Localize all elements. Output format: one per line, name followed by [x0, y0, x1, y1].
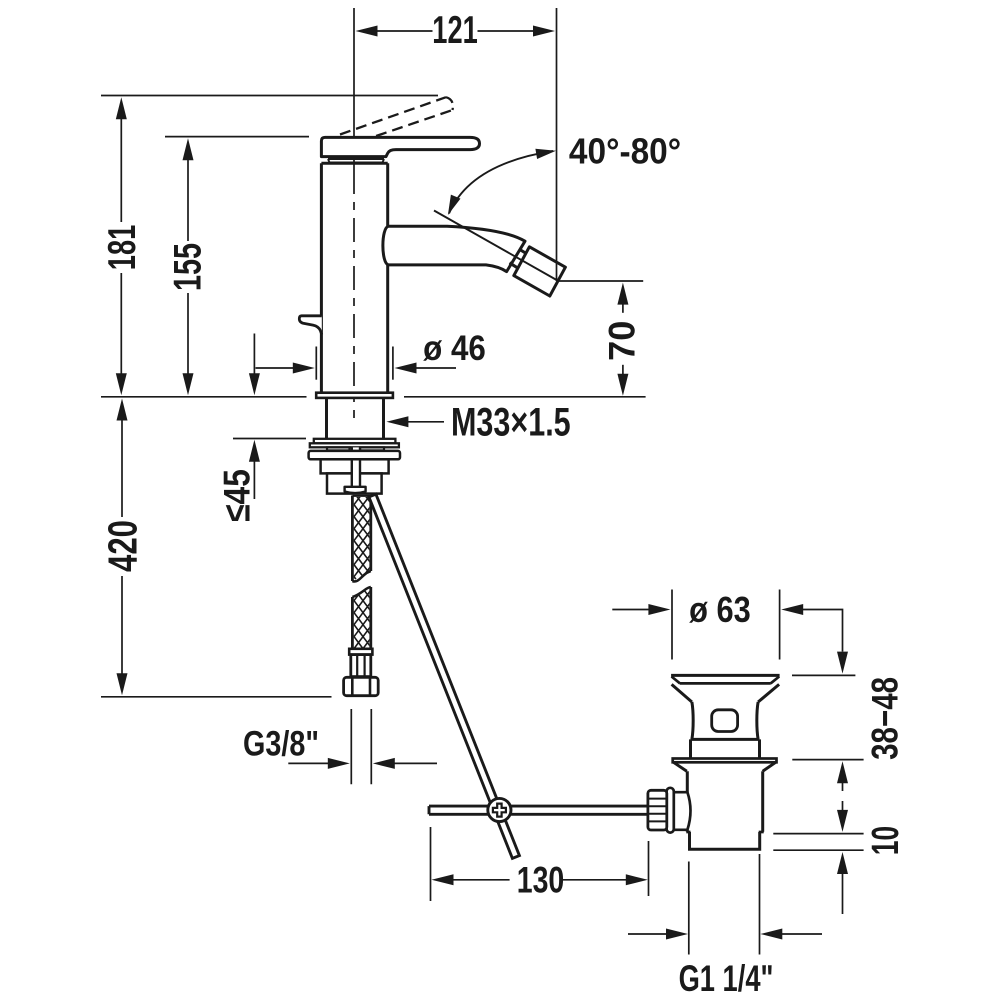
drain funnel cone left [672, 684, 692, 702]
drain funnel lip left [672, 677, 681, 684]
drain overflow hole [712, 710, 738, 732]
dim G38 right extension line [370, 709, 372, 784]
dim 121 label [432, 10, 477, 53]
angle arc arrow lower [448, 195, 461, 215]
dim 3848 label [865, 677, 906, 760]
reducer piece [327, 473, 382, 493]
dim 181 arrow down [116, 373, 127, 395]
dim le45 upper line [253, 334, 255, 376]
port capsule flange [667, 788, 674, 833]
svg-text:70: 70 [601, 321, 643, 361]
dim 130 right extension line [648, 841, 650, 896]
spout [383, 226, 525, 271]
hose ferrule [351, 655, 371, 677]
svg-text:130: 130 [517, 859, 565, 900]
dim 121 arrow left [356, 26, 378, 37]
lever collar ring [328, 159, 384, 162]
dim 3848 arrow down2 [837, 810, 848, 832]
faucet centerline (solid top part / dim 121 left extension) [353, 8, 355, 170]
angle arc [449, 151, 553, 214]
base flange [316, 393, 393, 398]
dim G114 left tail [628, 933, 668, 935]
drain upper body right [757, 702, 758, 739]
dim 10 arrow up [837, 852, 848, 874]
dim 3848 mid line a [842, 781, 844, 791]
dim 155 arrow up [183, 138, 194, 160]
dim 70 upper tail [622, 303, 624, 313]
lock plate left [327, 447, 350, 450]
dim dia63 right tail and corner [803, 610, 843, 652]
step extension line [773, 833, 863, 835]
dim 420 arrow down [117, 673, 128, 695]
dim 181 line upper [120, 117, 122, 222]
drain upper body left [692, 702, 693, 739]
drain mid body [691, 739, 760, 758]
aerator neck upper [519, 249, 528, 254]
drain funnel top [671, 674, 780, 677]
dim 420 label [99, 520, 145, 572]
dim 155 top extension line [165, 136, 309, 138]
aerator [514, 247, 566, 296]
port body [674, 792, 689, 830]
svg-text:10: 10 [863, 826, 906, 855]
drain funnel lip bottom [680, 682, 771, 685]
dim dia63 arrow right [648, 604, 670, 615]
dim 10 bottom tail [842, 873, 844, 915]
dim 130 label [517, 859, 565, 900]
dim 121 line left segment [377, 30, 433, 32]
drain lower body right [761, 771, 764, 832]
rod pivot screw [488, 798, 511, 821]
dim 10 label [863, 826, 906, 855]
svg-text:181: 181 [101, 225, 144, 270]
svg-text:ø 46: ø 46 [423, 329, 486, 368]
drain step right [759, 831, 764, 834]
side tab [299, 316, 322, 335]
actuator bar [429, 806, 648, 814]
dim 121 line right segment [478, 30, 535, 32]
svg-text:121: 121 [432, 10, 477, 53]
drain tailpipe [690, 832, 760, 849]
mounting surface line right [404, 396, 646, 398]
funnel top extension line [792, 674, 855, 676]
svg-text:G1 1/4": G1 1/4" [679, 957, 774, 999]
drain step left [686, 831, 690, 834]
angle arc arrow upper [535, 149, 556, 159]
dim le45 extension line [233, 438, 306, 440]
stud foot [345, 487, 366, 493]
dim dia63 left extension line [671, 590, 673, 660]
dim dia46 arrow right [395, 363, 417, 374]
dim G38 left tail [288, 762, 329, 764]
raised lever dashed upper line [340, 97, 446, 134]
threaded shank M33 [327, 398, 384, 439]
svg-text:38−48: 38−48 [865, 677, 906, 760]
dim 130 right tail [563, 879, 627, 881]
dim G114 label [679, 957, 774, 999]
connection stud [352, 447, 360, 487]
dim dia46 left extension line [315, 347, 317, 380]
dim M33 tail [407, 421, 444, 423]
dim 121 arrow right [533, 26, 555, 37]
knurled knob [648, 790, 667, 830]
label 40-80 degrees [569, 131, 681, 172]
faucet body outline [321, 163, 387, 392]
dim G114 arrow left [760, 929, 782, 940]
hose end nut G3/8 [344, 677, 379, 695]
flange top extension line [792, 759, 863, 761]
dim G114 arrow right [666, 929, 688, 940]
mounting nut [321, 459, 389, 473]
dim dia46 right extension line [392, 347, 394, 380]
dim 130 arrow left [432, 874, 454, 885]
dim G114 left extension line [688, 862, 690, 955]
dim dia63 label [689, 589, 751, 630]
dim G114 right tail [782, 933, 823, 935]
faucet centerline (dashed) [353, 170, 355, 418]
svg-text:≤45: ≤45 [217, 469, 258, 522]
dim 3848 arrow up [837, 761, 848, 783]
dim dia63 right extension line [779, 590, 781, 660]
dim le45 lower line [253, 459, 255, 499]
lock plate right [360, 447, 384, 450]
dim dia46 left tail [256, 367, 295, 369]
drain lower body left [686, 771, 689, 832]
dim dia46 right tail [416, 367, 457, 369]
big washer [309, 451, 400, 459]
dim dia46 label [423, 329, 486, 368]
dim 181 label [101, 225, 144, 270]
dim 130 arrow right [626, 874, 648, 885]
drain flange chamfer left [674, 762, 687, 771]
drain joint line [691, 738, 760, 741]
dim 181 arrow up [116, 97, 127, 119]
dim 181 line lower [120, 273, 122, 375]
drain flange chamfer right [763, 762, 776, 771]
hose collar [349, 649, 372, 655]
dim 70 arrow down [617, 374, 628, 396]
dim G38 arrow left [373, 758, 395, 769]
dim M33 label [451, 401, 571, 445]
dim le45 arrow down [249, 373, 260, 395]
dim 3848 mid line b [842, 801, 844, 811]
mounting surface line left [101, 396, 307, 398]
top reference line [101, 95, 438, 97]
dim le45 arrow up [249, 440, 260, 462]
dim M33 arrow [386, 416, 408, 427]
dim G38 label [243, 723, 319, 763]
dim 70 label [601, 321, 643, 361]
dim 420 arrow up [117, 399, 128, 421]
drain flange plate [673, 759, 777, 763]
dim 121 right extension line [556, 8, 558, 281]
pop-up rod [369, 494, 520, 858]
dim le45 label [217, 469, 258, 522]
lever handle [321, 137, 479, 156]
bottom reference line [101, 696, 332, 698]
dim 70 arrow up [617, 283, 628, 305]
svg-text:G3/8": G3/8" [243, 723, 319, 763]
dim G38 right tail [394, 762, 438, 764]
dim 3848 arrow down [837, 652, 848, 674]
aerator neck lower [510, 263, 519, 268]
dim dia63 left tail [612, 609, 649, 611]
dim 420 line upper [121, 418, 123, 517]
drain funnel cone right [758, 684, 779, 702]
dim G114 right extension line [759, 854, 761, 955]
angle leader line [434, 211, 558, 281]
tailpipe bottom extension line [773, 849, 863, 851]
port bulge [687, 792, 690, 830]
washer B [310, 443, 399, 447]
dim G38 left extension line [350, 709, 352, 784]
dim dia63 arrow left [781, 604, 803, 615]
washer A [314, 439, 396, 444]
raised lever dashed lower line [360, 110, 453, 142]
dim 155 label [167, 243, 210, 291]
dim 70 top extension line [558, 280, 644, 282]
drain funnel lip right [771, 677, 780, 684]
dim 155 line upper [187, 157, 189, 241]
dim 155 line lower [187, 293, 189, 375]
dim 70 lower tail [622, 365, 624, 376]
dim 130 left extension line [430, 827, 432, 901]
dim 130 left tail [453, 879, 510, 881]
dim G38 arrow right [328, 758, 350, 769]
flexible hose with braided crosshatch [0, 490, 833, 663]
dim 155 arrow down [183, 373, 194, 395]
dim 420 line lower [121, 576, 123, 676]
svg-text:M33×1.5: M33×1.5 [451, 401, 571, 445]
raised lever dashed tip arc [446, 97, 453, 110]
svg-text:40°-80°: 40°-80° [569, 131, 681, 172]
dim dia46 arrow left [293, 363, 315, 374]
svg-text:155: 155 [167, 243, 210, 291]
svg-text:ø 63: ø 63 [689, 589, 751, 630]
svg-text:420: 420 [99, 520, 145, 572]
